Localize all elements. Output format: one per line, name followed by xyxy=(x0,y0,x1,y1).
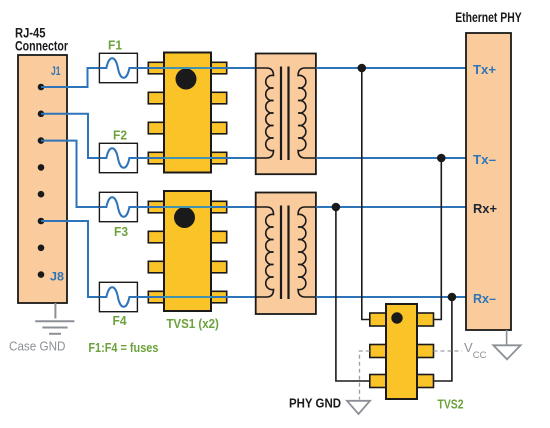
wire F3 to transformer T2 primary top xyxy=(137,206,255,208)
node Rx- junction xyxy=(448,293,457,302)
node Tx- junction xyxy=(437,154,446,163)
transformer T2 xyxy=(256,193,316,315)
fuse F1 xyxy=(99,53,137,82)
wire F2 to transformer T1 primary bottom xyxy=(137,157,255,159)
label RJ-45 Connector xyxy=(15,26,69,54)
IC U2 (Ethernet PHY) xyxy=(466,33,511,330)
svg-text:Rx+: Rx+ xyxy=(473,201,497,216)
fuse F3 xyxy=(99,192,137,221)
wire J2 pin to F2 xyxy=(41,114,99,158)
connector pin dots 1-8 xyxy=(38,84,45,278)
svg-text:TVS2: TVS2 xyxy=(438,397,464,412)
wire Rx+ node to TVS2 pin 3 xyxy=(336,207,370,381)
svg-text:J1: J1 xyxy=(51,64,61,78)
svg-text:F4: F4 xyxy=(113,313,128,328)
fuse F2 xyxy=(99,143,137,172)
svg-text:F1: F1 xyxy=(108,38,122,53)
svg-text:F1:F4 = fuses: F1:F4 = fuses xyxy=(88,340,158,355)
svg-text:Ethernet PHY: Ethernet PHY xyxy=(455,10,522,25)
svg-text:Tx+: Tx+ xyxy=(473,62,496,77)
ground (case ground symbol) xyxy=(35,303,74,334)
svg-text:F2: F2 xyxy=(113,128,127,143)
connector J1..J8 (RJ-45 connector body) xyxy=(18,55,67,303)
svg-text:Tx–: Tx– xyxy=(473,152,496,167)
wire T1 secondary bottom to PHY Tx- xyxy=(316,157,466,159)
wire Tx+ node to TVS2 pin 1 xyxy=(362,68,370,320)
node Tx+ junction xyxy=(358,64,367,73)
wire T2 secondary top to PHY Rx+ xyxy=(316,206,466,208)
svg-text:Connector: Connector xyxy=(15,39,69,54)
svg-text:J8: J8 xyxy=(50,270,64,284)
TVS diode array U-TVS1a (upper TVS1) xyxy=(148,53,226,173)
fuse F4 xyxy=(99,282,137,311)
wire J6 pin to F4 xyxy=(41,221,99,297)
svg-text:Case GND: Case GND xyxy=(9,339,66,354)
wire (dashed) TVS2 Vcc pin xyxy=(434,350,463,352)
wire J1 pin to F1 xyxy=(41,68,99,87)
ground PHY GND symbol xyxy=(347,401,370,414)
svg-text:V: V xyxy=(464,340,473,355)
svg-text:Rx–: Rx– xyxy=(473,291,496,306)
wire Rx- node to TVS2 pin 4 xyxy=(434,297,452,381)
wire T1 secondary top to PHY Tx+ xyxy=(316,67,466,69)
label Vcc xyxy=(464,340,487,361)
wire J3 pin to F3 xyxy=(41,141,99,207)
wire (dashed) TVS2 ground pin to PHY GND xyxy=(360,351,370,400)
wire T2 secondary bottom to PHY Rx- xyxy=(316,296,466,298)
node Rx+ junction xyxy=(332,203,341,212)
wire Tx- node to TVS2 pin 6 xyxy=(434,158,442,320)
svg-text:TVS1 (x2): TVS1 (x2) xyxy=(166,316,219,331)
power Vcc supply symbol xyxy=(493,345,520,359)
wire F1 to transformer T1 primary top xyxy=(137,67,255,69)
svg-text:PHY GND: PHY GND xyxy=(289,395,341,410)
TVS diode array U-TVS1b (lower TVS1) xyxy=(148,191,226,311)
svg-text:CC: CC xyxy=(473,350,487,361)
transformer T1 xyxy=(256,54,316,175)
svg-text:F3: F3 xyxy=(114,224,128,239)
wire PHY Vcc pin xyxy=(506,330,508,345)
TVS diode array TVS2 xyxy=(370,304,434,399)
wire F4 to transformer T2 primary bottom xyxy=(137,296,255,298)
